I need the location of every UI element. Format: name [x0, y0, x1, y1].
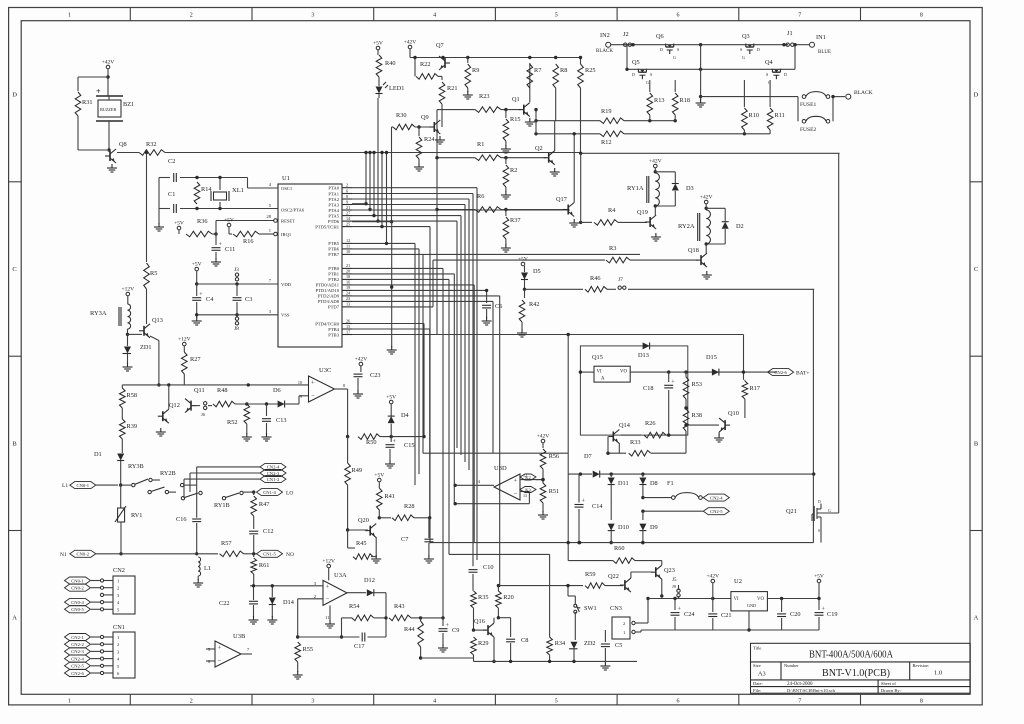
svg-text:Q23: Q23 [664, 567, 675, 574]
svg-text:27: 27 [346, 210, 350, 215]
svg-text:+: + [326, 583, 330, 590]
svg-text:CN2-6: CN2-6 [774, 370, 787, 375]
svg-text:+5V: +5V [518, 257, 528, 263]
svg-text:24-Oct-2000: 24-Oct-2000 [787, 682, 813, 687]
svg-text:Size: Size [753, 663, 761, 668]
svg-text:R13: R13 [654, 97, 665, 104]
svg-text:21: 21 [346, 263, 350, 268]
svg-text:G: G [742, 55, 745, 60]
svg-text:R9: R9 [472, 67, 479, 74]
svg-text:3: 3 [311, 13, 314, 19]
svg-text:R12: R12 [601, 139, 612, 146]
svg-text:CN2-4: CN2-4 [710, 495, 723, 500]
svg-text:C3: C3 [245, 296, 252, 303]
svg-text:G: G [646, 80, 649, 85]
svg-text:CN0-4: CN0-4 [71, 600, 84, 605]
svg-text:18: 18 [346, 274, 350, 279]
svg-text:C6: C6 [495, 303, 502, 310]
svg-text:+42V: +42V [649, 159, 662, 165]
svg-text:R20: R20 [503, 594, 514, 601]
svg-text:D4: D4 [401, 412, 410, 419]
svg-text:R6: R6 [477, 193, 484, 200]
svg-text:CN2-4: CN2-4 [267, 465, 280, 470]
svg-text:S: S [677, 47, 679, 52]
svg-text:5: 5 [555, 13, 558, 19]
svg-text:L1: L1 [62, 483, 68, 489]
svg-text:CN0-2: CN0-2 [71, 586, 84, 591]
svg-text:C2: C2 [168, 158, 175, 165]
svg-text:CN2-1: CN2-1 [71, 635, 84, 640]
svg-text:D15: D15 [706, 354, 717, 361]
svg-text:ZD1: ZD1 [140, 344, 152, 351]
svg-text:9: 9 [300, 394, 302, 399]
svg-text:BLACK: BLACK [854, 90, 873, 96]
svg-text:D1: D1 [94, 451, 102, 458]
svg-text:CN1-4: CN1-4 [263, 490, 276, 495]
svg-text:1.0: 1.0 [934, 670, 942, 677]
svg-text:R59: R59 [585, 571, 596, 578]
svg-text:Q3: Q3 [742, 33, 750, 40]
svg-text:Q5: Q5 [632, 59, 640, 66]
svg-text:R41: R41 [384, 493, 395, 500]
svg-text:R28: R28 [404, 503, 415, 510]
svg-text:CN1-2: CN1-2 [267, 477, 280, 482]
svg-text:Q15: Q15 [592, 354, 603, 361]
svg-text:R61: R61 [259, 562, 270, 569]
svg-text:+: + [311, 379, 315, 386]
svg-text:LED1: LED1 [389, 85, 404, 92]
svg-text:11: 11 [325, 615, 329, 620]
svg-text:Q13: Q13 [152, 317, 163, 324]
svg-text:RY2A: RY2A [678, 223, 695, 230]
svg-text:2: 2 [117, 642, 119, 647]
svg-text:+42V: +42V [355, 357, 368, 363]
svg-text:R10: R10 [749, 112, 760, 119]
svg-text:R37: R37 [510, 217, 521, 224]
svg-text:R16: R16 [243, 238, 254, 245]
svg-text:9: 9 [346, 199, 348, 204]
svg-text:VI: VI [597, 370, 602, 375]
svg-text:D: D [632, 72, 635, 77]
svg-text:R24: R24 [424, 136, 435, 143]
svg-text:+: + [96, 87, 101, 96]
svg-text:+5V: +5V [174, 221, 184, 227]
svg-text:13: 13 [346, 302, 350, 307]
svg-text:VDD: VDD [281, 282, 292, 287]
svg-text:Q2: Q2 [535, 145, 543, 152]
svg-text:+5V: +5V [814, 574, 824, 580]
svg-text:Q21: Q21 [786, 508, 797, 515]
svg-text:D:\BNT\SCH\Bnt-v10.sch: D:\BNT\SCH\Bnt-v10.sch [787, 688, 836, 693]
svg-text:LO: LO [286, 491, 293, 497]
svg-text:CN0-1: CN0-1 [77, 483, 90, 488]
svg-text:PTA5: PTA5 [328, 213, 339, 218]
svg-text:OSC1: OSC1 [281, 186, 293, 191]
svg-text:−: − [514, 490, 518, 497]
svg-text:12: 12 [346, 238, 350, 243]
svg-text:D14: D14 [283, 599, 295, 606]
svg-text:+5V: +5V [192, 262, 202, 268]
svg-text:R49: R49 [352, 467, 363, 474]
svg-text:+42V: +42V [537, 434, 550, 440]
svg-text:Q11: Q11 [194, 387, 205, 394]
svg-text:B: B [12, 440, 17, 447]
svg-text:C10: C10 [483, 564, 494, 571]
svg-text:U2: U2 [734, 578, 742, 585]
svg-text:R1: R1 [477, 141, 484, 148]
svg-text:R56: R56 [549, 453, 560, 460]
svg-text:RY1A: RY1A [627, 185, 644, 192]
svg-text:PTD0/AD11: PTD0/AD11 [316, 283, 340, 288]
svg-text:C16: C16 [176, 516, 187, 523]
svg-text:N1: N1 [60, 552, 67, 558]
svg-text:G: G [673, 55, 676, 60]
svg-text:BAT+: BAT+ [796, 371, 810, 377]
svg-text:+42V: +42V [404, 40, 417, 46]
svg-text:CN1-5: CN1-5 [263, 552, 276, 557]
svg-text:PTA2: PTA2 [328, 197, 339, 202]
svg-text:7: 7 [798, 13, 801, 19]
svg-text:BUZZER: BUZZER [100, 107, 116, 112]
svg-text:VSS: VSS [281, 313, 290, 318]
svg-text:R46: R46 [590, 275, 601, 282]
svg-text:Q1: Q1 [512, 96, 520, 103]
svg-text:R31: R31 [82, 99, 93, 106]
svg-text:C: C [12, 266, 16, 273]
svg-text:PTA0: PTA0 [328, 186, 339, 191]
svg-text:R25: R25 [585, 67, 596, 74]
svg-text:Title: Title [753, 645, 761, 650]
svg-text:BNT-V1.0(PCB): BNT-V1.0(PCB) [822, 668, 890, 679]
svg-text:R60: R60 [614, 545, 625, 552]
svg-text:17: 17 [346, 329, 350, 334]
svg-text:BLUE: BLUE [818, 50, 831, 55]
svg-text:R35: R35 [478, 594, 489, 601]
svg-text:D: D [974, 92, 979, 99]
svg-text:Q14: Q14 [619, 422, 631, 429]
svg-text:R11: R11 [775, 112, 785, 119]
svg-text:C12: C12 [263, 528, 274, 535]
svg-text:R54: R54 [349, 603, 360, 610]
svg-text:Revision: Revision [913, 663, 930, 668]
svg-text:D: D [12, 92, 17, 99]
svg-text:R40: R40 [385, 60, 396, 67]
svg-text:RV1: RV1 [131, 512, 142, 519]
svg-text:Q8: Q8 [119, 141, 127, 148]
svg-text:R43: R43 [394, 603, 405, 610]
svg-text:Date:: Date: [753, 681, 763, 686]
svg-text:−: − [326, 596, 330, 603]
svg-text:+42V: +42V [700, 195, 713, 201]
svg-text:CN2-3: CN2-3 [267, 471, 280, 476]
svg-text:C11: C11 [225, 246, 235, 253]
svg-text:2: 2 [117, 586, 119, 591]
svg-text:U3D: U3D [494, 465, 507, 472]
svg-text:CN2-6: CN2-6 [71, 671, 84, 676]
svg-text:Q17: Q17 [556, 196, 567, 203]
svg-text:6: 6 [677, 699, 680, 705]
svg-text:10: 10 [298, 380, 302, 385]
svg-text:R29: R29 [478, 640, 489, 647]
svg-text:D: D [818, 500, 821, 504]
svg-text:Q6: Q6 [656, 33, 664, 40]
svg-text:S: S [740, 47, 742, 52]
svg-text:Q12: Q12 [169, 402, 180, 409]
svg-text:R2: R2 [510, 167, 517, 174]
svg-text:R51: R51 [549, 488, 560, 495]
svg-text:Q7: Q7 [436, 42, 444, 49]
svg-text:PTB1: PTB1 [328, 272, 339, 277]
svg-text:C22: C22 [219, 600, 230, 607]
svg-text:PTB4: PTB4 [328, 327, 339, 332]
svg-text:16: 16 [346, 280, 350, 285]
svg-text:13: 13 [523, 493, 527, 498]
svg-text:4: 4 [433, 13, 436, 19]
svg-text:R22: R22 [420, 61, 431, 68]
svg-text:Q22: Q22 [608, 573, 619, 580]
svg-text:21: 21 [346, 205, 350, 210]
svg-text:R47: R47 [259, 501, 270, 508]
svg-text:RESET: RESET [281, 218, 295, 223]
svg-text:J8: J8 [234, 326, 239, 332]
svg-text:R27: R27 [190, 356, 201, 363]
svg-text:R48: R48 [217, 387, 228, 394]
svg-text:J5: J5 [672, 578, 677, 583]
svg-text:U1: U1 [282, 175, 290, 182]
svg-text:10: 10 [346, 249, 350, 254]
svg-text:PTA4: PTA4 [328, 208, 339, 213]
svg-text:PTA1: PTA1 [328, 191, 339, 196]
svg-text:R42: R42 [529, 301, 540, 308]
svg-text:PTD4/TCH0: PTD4/TCH0 [315, 321, 339, 326]
svg-text:R33: R33 [630, 439, 641, 446]
svg-text:PTB3: PTB3 [328, 332, 339, 337]
svg-text:C18: C18 [643, 385, 654, 392]
svg-text:C24: C24 [684, 611, 695, 618]
svg-text:Q10: Q10 [728, 410, 739, 417]
svg-text:R18: R18 [680, 97, 691, 104]
svg-text:D12: D12 [364, 577, 375, 584]
svg-text:C8: C8 [521, 637, 528, 644]
svg-text:8: 8 [346, 194, 348, 199]
svg-text:R55: R55 [303, 646, 314, 653]
svg-text:J2: J2 [623, 31, 629, 38]
svg-text:+5V: +5V [224, 218, 234, 224]
svg-text:C17: C17 [354, 643, 365, 650]
svg-text:−: − [218, 657, 222, 664]
svg-text:+5V: +5V [386, 395, 396, 401]
svg-text:CN0-1: CN0-1 [71, 578, 84, 583]
svg-text:FUSE1: FUSE1 [800, 102, 816, 108]
svg-text:IRQ1: IRQ1 [281, 232, 292, 237]
svg-text:OSC2/PTA6: OSC2/PTA6 [281, 207, 305, 212]
svg-text:PTD6: PTD6 [328, 219, 340, 224]
svg-text:CN0-5: CN0-5 [71, 607, 84, 612]
svg-text:R7: R7 [534, 67, 541, 74]
svg-text:+12V: +12V [122, 287, 135, 293]
svg-text:R17: R17 [750, 385, 761, 392]
svg-text:6: 6 [677, 13, 680, 19]
svg-text:D6: D6 [273, 387, 281, 394]
svg-text:CN3: CN3 [610, 605, 622, 612]
svg-text:J3: J3 [234, 267, 239, 273]
svg-text:PTD2/AD9: PTD2/AD9 [318, 294, 340, 299]
svg-text:CN2-2: CN2-2 [71, 642, 84, 647]
svg-text:J1: J1 [787, 30, 793, 37]
svg-text:C4: C4 [206, 296, 214, 303]
svg-text:1: 1 [68, 13, 71, 19]
svg-text:A: A [601, 377, 605, 382]
svg-text:CN2-3: CN2-3 [71, 649, 84, 654]
svg-text:D3: D3 [686, 185, 694, 192]
svg-text:25: 25 [346, 221, 350, 226]
svg-text:R53: R53 [692, 381, 703, 388]
svg-text:Q18: Q18 [688, 247, 699, 254]
svg-text:PTD7: PTD7 [328, 305, 340, 310]
svg-text:C5: C5 [615, 642, 622, 649]
svg-text:L1: L1 [204, 565, 211, 572]
svg-text:CN2-4: CN2-4 [71, 656, 84, 661]
svg-text:ZD2: ZD2 [584, 640, 596, 647]
svg-text:CN2: CN2 [113, 567, 125, 574]
svg-text:CN2-5: CN2-5 [71, 664, 84, 669]
svg-text:CN1: CN1 [113, 624, 125, 631]
svg-text:R26: R26 [645, 420, 656, 427]
svg-text:Q20: Q20 [358, 517, 369, 524]
svg-text:U3C: U3C [319, 367, 331, 374]
svg-text:C7: C7 [401, 536, 408, 543]
svg-text:R36: R36 [197, 218, 208, 225]
svg-text:+12V: +12V [178, 337, 191, 343]
svg-text:20: 20 [346, 269, 350, 274]
svg-text:R52: R52 [227, 419, 238, 426]
svg-text:8: 8 [920, 13, 923, 19]
svg-text:BZ1: BZ1 [123, 101, 134, 108]
svg-text:R8: R8 [560, 67, 567, 74]
svg-text:VO: VO [620, 370, 627, 375]
svg-text:RY2B: RY2B [160, 470, 176, 477]
svg-text:C20: C20 [790, 611, 801, 618]
svg-text:PTB0: PTB0 [328, 266, 339, 271]
svg-text:D: D [757, 47, 760, 52]
svg-text:PTD3/AD8: PTD3/AD8 [318, 299, 340, 304]
svg-text:C15: C15 [404, 442, 415, 449]
svg-text:U3B: U3B [233, 633, 246, 640]
svg-text:R32: R32 [146, 141, 157, 148]
svg-text:R34: R34 [555, 640, 566, 647]
svg-text:CN0-2: CN0-2 [77, 552, 90, 557]
svg-text:+5V: +5V [373, 41, 383, 47]
svg-text:G: G [828, 509, 831, 513]
svg-text:PTA3: PTA3 [328, 202, 339, 207]
svg-text:J7: J7 [618, 277, 623, 283]
svg-text:K3: K3 [525, 487, 531, 492]
svg-text:15: 15 [346, 324, 350, 329]
svg-text:R45: R45 [356, 540, 367, 547]
svg-text:Q19: Q19 [637, 209, 648, 216]
svg-text:U3A: U3A [334, 572, 347, 579]
svg-text:8: 8 [343, 383, 345, 388]
svg-text:VI: VI [734, 597, 739, 602]
svg-text:PTD1/AD10: PTD1/AD10 [316, 288, 340, 293]
svg-text:D: D [660, 47, 663, 52]
svg-text:R30: R30 [396, 112, 407, 119]
svg-text:D7: D7 [584, 453, 592, 460]
svg-text:+: + [218, 644, 222, 651]
svg-text:1: 1 [117, 579, 119, 584]
svg-text:2: 2 [346, 183, 348, 188]
svg-text:A: A [12, 615, 17, 622]
svg-text:K2: K2 [525, 475, 531, 480]
svg-text:+5V: +5V [374, 473, 384, 479]
svg-text:C1: C1 [168, 191, 175, 198]
svg-text:Drawn By:: Drawn By: [881, 688, 901, 693]
svg-text:19: 19 [346, 285, 350, 290]
svg-text:R15: R15 [510, 116, 521, 123]
svg-text:XL1: XL1 [232, 187, 244, 194]
svg-text:R39: R39 [127, 423, 138, 430]
svg-text:28: 28 [267, 214, 272, 219]
svg-text:D8: D8 [650, 480, 658, 487]
svg-text:R57: R57 [221, 540, 232, 547]
svg-text:D5: D5 [533, 268, 541, 275]
svg-text:F1: F1 [667, 480, 674, 487]
svg-text:B: B [974, 440, 979, 447]
svg-text:GND: GND [747, 603, 756, 608]
svg-text:4: 4 [433, 699, 436, 705]
svg-text:D11: D11 [618, 480, 629, 487]
svg-text:−: − [311, 392, 315, 399]
svg-text:2: 2 [623, 621, 625, 626]
svg-text:C23: C23 [370, 372, 381, 379]
svg-text:C21: C21 [721, 612, 732, 619]
svg-text:R3: R3 [609, 245, 616, 252]
svg-text:23: 23 [346, 296, 350, 301]
svg-text:PTB2: PTB2 [328, 277, 339, 282]
svg-text:7: 7 [798, 699, 801, 705]
svg-text:3: 3 [311, 699, 314, 705]
svg-text:C19: C19 [827, 611, 838, 618]
svg-text:R23: R23 [479, 93, 490, 100]
svg-text:BLACK: BLACK [596, 49, 613, 54]
svg-text:R50: R50 [366, 439, 377, 446]
svg-text:1: 1 [269, 228, 271, 233]
svg-text:Number: Number [784, 663, 799, 668]
svg-text:+42V: +42V [707, 574, 720, 580]
svg-text:PTB7: PTB7 [328, 252, 339, 257]
svg-text:1: 1 [117, 635, 119, 640]
svg-text:2: 2 [190, 699, 193, 705]
svg-text:R5: R5 [150, 270, 157, 277]
svg-text:PTD5/TCH1: PTD5/TCH1 [315, 224, 339, 229]
svg-text:5: 5 [555, 699, 558, 705]
svg-text:R44: R44 [404, 626, 415, 633]
svg-text:PTB6: PTB6 [328, 247, 339, 252]
svg-text:A: A [974, 615, 979, 622]
svg-text:1: 1 [68, 699, 71, 705]
svg-text:IN2: IN2 [600, 32, 610, 39]
svg-text:8: 8 [920, 699, 923, 705]
svg-text:C14: C14 [592, 503, 603, 510]
svg-text:6: 6 [346, 188, 348, 193]
svg-text:D10: D10 [618, 524, 629, 531]
svg-text:+42V: +42V [102, 60, 115, 66]
svg-text:FUSE2: FUSE2 [800, 127, 816, 133]
svg-text:26: 26 [346, 318, 350, 323]
svg-text:1: 1 [623, 630, 625, 635]
svg-text:11: 11 [346, 244, 350, 249]
svg-text:D9: D9 [650, 524, 658, 531]
